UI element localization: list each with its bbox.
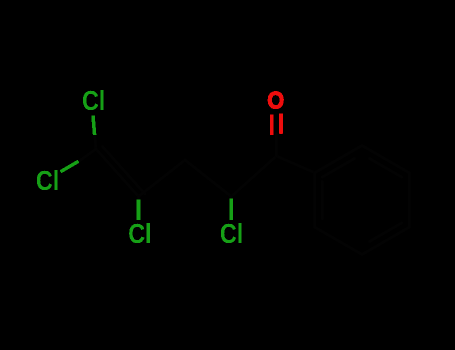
dark carbon skeleton (nearly invisible, as in reference)	[79, 134, 410, 255]
wire: C5=C4 double bond	[96, 149, 139, 197]
svg-text:Cl: Cl	[36, 166, 59, 196]
svg-text:O: O	[267, 86, 284, 114]
bond Cl(top)-C5 green half	[93, 116, 95, 136]
green Cl bond stubs	[61, 116, 232, 221]
aromatic inner bonds	[321, 181, 324, 218]
svg-text:Cl: Cl	[82, 86, 105, 116]
wire: C2-C1	[231, 156, 276, 197]
wire: dark halves of hetero bonds	[95, 134, 97, 149]
bond Cl(left)-C5 green half	[61, 161, 79, 172]
svg-text:Cl: Cl	[128, 219, 151, 249]
svg-text:Cl: Cl	[220, 219, 243, 249]
bond C2-Cl green	[229, 198, 233, 220]
benzene ring	[315, 146, 409, 255]
bond C4-Cl green	[137, 199, 141, 220]
red C=O double bond stubs	[272, 113, 281, 134]
wire: C3-C2	[185, 160, 231, 197]
wire: C4-C3	[139, 160, 186, 197]
wire: C1-phenyl	[276, 156, 314, 173]
